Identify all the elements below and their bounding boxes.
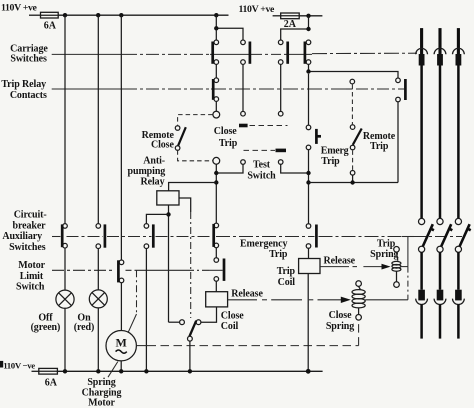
node Spring Charging Motor label [82, 377, 122, 408]
svg-text:Trip: Trip [277, 266, 296, 277]
wire lamp On to -ve bus [97, 308, 99, 371]
svg-text:Relay: Relay [141, 176, 165, 187]
wire trip spring to trip linkage riser [401, 266, 408, 268]
junction remote trip tap [350, 180, 354, 184]
linkage trip coil release to trip spring [320, 264, 391, 270]
node test switch close terminal (bottom) [241, 160, 246, 165]
node On (red) label [74, 312, 94, 333]
svg-text:110V +ve: 110V +ve [1, 3, 38, 14]
linkage anti-pumping relay to changeover contact (dash-dot) [190, 212, 192, 318]
carriage switch S1 (col K1, bar left) [213, 40, 219, 64]
node Anti-pumping Relay label [128, 156, 166, 188]
svg-text:110V −ve: 110V −ve [3, 360, 35, 370]
svg-text:Trip: Trip [321, 156, 340, 167]
wire branch feed to K1/K2 columns [216, 15, 243, 40]
wire col B (top bus to aux switch) [97, 15, 99, 223]
junction branch K1/K2 [214, 26, 218, 30]
svg-text:Close: Close [221, 311, 244, 322]
wire relay column to changeover left terminal [169, 321, 180, 323]
junction node E lower [306, 180, 310, 184]
node 110V +ve supply label (2A branch) [239, 4, 276, 15]
switch changeover contact (anti-pumping / close) [180, 320, 201, 341]
svg-text:Release: Release [324, 255, 356, 266]
junction top bus at col A [63, 13, 67, 17]
junction top bus at col C [119, 13, 123, 17]
junction branch K3/K4 [306, 27, 310, 31]
wire relay to linkage (right side) [179, 198, 191, 212]
wire node D to test switch close terminal [216, 164, 243, 173]
aux switch A5 (col K4, bar right, trip circuit) [306, 224, 316, 249]
relay RLA anti-pumping relay coil [157, 191, 179, 205]
junction -ve bus at lamp On [96, 369, 100, 373]
wire col A aux switch to lamp [64, 248, 66, 290]
node Trip Coil label [277, 266, 296, 288]
test link Trip (dashes and solid plug bar) [244, 149, 287, 153]
svg-text:Close: Close [214, 126, 237, 137]
breaker pole 3 [453, 28, 471, 339]
wire close coil bottom to changeover right terminal [201, 307, 217, 322]
node test switch trip terminal (bottom) [278, 160, 283, 165]
node Remote Close label [142, 130, 175, 150]
node Carriage Switches label [10, 44, 48, 65]
breaker pole 1 [416, 28, 434, 339]
lamp LP1 Off green [56, 290, 74, 308]
svg-text:Contacts: Contacts [10, 90, 47, 101]
svg-text:110V +ve: 110V +ve [239, 4, 276, 15]
wire trip coil to -ve bus [307, 274, 309, 372]
fuse F2 2A [273, 13, 300, 30]
carriage switch S4 (col K4, bar left) [305, 40, 311, 64]
switch Remote Trip (blade with dashed leads) [350, 79, 362, 182]
junction -ve bus at trip coil [306, 369, 311, 374]
svg-text:M: M [116, 336, 127, 350]
spring Close Spring [352, 281, 365, 320]
carriage switch S2 (col K2, bar right) [241, 40, 250, 64]
svg-text:6A: 6A [44, 20, 57, 31]
junction -ve bus at motor [119, 369, 123, 373]
node test switch close terminal (top) [241, 111, 246, 116]
svg-text:breaker: breaker [13, 220, 47, 231]
node Motor Limit Switch label [16, 260, 46, 292]
svg-text:Coil: Coil [278, 277, 296, 288]
wire close coil column (aux to limit to coil) [215, 281, 217, 292]
wire trip coil column (aux contact to coil) [308, 248, 310, 258]
coil Trip Coil [299, 259, 320, 274]
coil Close Coil [206, 292, 228, 307]
wire close tap lower to node D [215, 164, 217, 223]
switch Emergency Trip pushbutton (col K4) [306, 74, 321, 150]
wire remote-trip contact down to node E [397, 102, 399, 183]
wire K3 column through trip row [280, 64, 282, 111]
wire test switch trip terminal to node E [281, 164, 309, 173]
trip relay contact TR2 (remote trip circuit, bar right) [396, 78, 406, 102]
switch Remote Close (blade with dashed leads) [175, 115, 212, 161]
svg-text:(green): (green) [31, 322, 61, 333]
wire col D aux switch to -ve bus [145, 249, 147, 372]
linkage motor to close spring (solid stub then dashed) [136, 320, 358, 345]
wire 2A branch bus [299, 15, 322, 17]
svg-text:Auxiliary: Auxiliary [2, 231, 42, 242]
wire node D to anti-pumping relay [169, 183, 217, 191]
junction top bus at col B [96, 13, 100, 17]
wire leader from label to motor [108, 362, 118, 378]
node test switch trip terminal (top) [278, 111, 283, 116]
node Circuit-breaker Auxiliary Switches label [2, 210, 46, 254]
wire -ve bottom bus [57, 370, 322, 372]
svg-text:Switch: Switch [16, 281, 45, 292]
svg-text:Emergency: Emergency [240, 238, 288, 249]
linkage motor to limit row (dash-dot) [128, 270, 136, 332]
svg-text:Switches: Switches [9, 242, 46, 253]
spring Trip Spring [392, 247, 401, 288]
wire K4 to remote-trip contact branch [309, 64, 399, 78]
aux switch A1 (col A, bar left, lamp Off circuit) [62, 224, 67, 248]
wire carriage-switch linkage row [52, 53, 417, 54]
wire K1 column upper stub [215, 28, 217, 40]
wire relay branch to aux contact col D [146, 214, 168, 223]
svg-text:Release: Release [231, 289, 263, 300]
wire lamp Off to -ve bus [64, 308, 66, 371]
svg-text:Motor: Motor [18, 260, 45, 271]
node Close Coil label [221, 311, 244, 333]
wire limit switch to motor [120, 283, 122, 331]
svg-text:Test: Test [253, 160, 271, 171]
node close tap terminal (lower) [213, 157, 220, 164]
fuse F3 6A (bottom) [32, 368, 58, 388]
junction node D upper [214, 171, 218, 175]
node 110V +ve supply label (left) [1, 3, 38, 14]
junction 2A bus [306, 14, 310, 18]
aux switch A2 (col B, bar right, lamp On circuit) [96, 224, 105, 249]
wire col C (top bus to motor limit switch) [120, 15, 122, 260]
junction -ve bus at lamp Off [63, 369, 67, 373]
junction node D lower [214, 180, 218, 184]
node 110V -ve supply label [0, 360, 35, 370]
motor M spring charging motor [106, 331, 136, 361]
wire motor to -ve bus [120, 361, 122, 371]
wire emergency trip to trip coil column [308, 150, 310, 224]
motor limit switch L1 (col C, bar left) [118, 260, 123, 283]
aux switch A3 (col D, bar right, motor circuit) [144, 224, 153, 249]
wire node E to remote trip contact [309, 182, 399, 184]
test link Close (solid plug bar and dashes) [239, 124, 288, 128]
svg-text:Trip Relay: Trip Relay [1, 79, 46, 90]
wire trip-relay linkage row [52, 88, 404, 90]
junction top bus at col K1 [214, 13, 218, 17]
node Emergency Trip label [240, 238, 288, 260]
svg-text:Trip: Trip [269, 249, 288, 260]
svg-text:Switches: Switches [10, 54, 47, 65]
svg-text:Close: Close [329, 310, 352, 321]
svg-text:6A: 6A [45, 377, 58, 388]
svg-text:Anti-: Anti- [143, 156, 165, 167]
node Trip Relay Contacts label [1, 79, 47, 101]
svg-text:Trip: Trip [370, 141, 389, 152]
node Test Switch label [247, 160, 276, 182]
wire relay bottom column [168, 205, 170, 322]
wire changeover bottom to -ve bus [189, 341, 191, 371]
svg-text:Motor: Motor [88, 398, 115, 408]
aux switch A4 (col K1, bar left, close circuit) [214, 223, 219, 248]
linkage close coil release to close spring [228, 297, 351, 303]
junction -ve bus at changeover [188, 369, 192, 373]
wire close spring to linkage riser [365, 299, 408, 301]
node Emerg Trip label [321, 145, 349, 167]
svg-text:Switch: Switch [247, 170, 276, 181]
carriage switch S3 (col K3, bar right) [278, 40, 287, 64]
svg-text:Spring: Spring [326, 321, 354, 332]
breaker pole 2 [434, 28, 452, 339]
fuse F1 6A (top) [29, 12, 58, 31]
linkage riser from aux row to release lines [407, 237, 409, 300]
lamp LP2 On red [89, 290, 107, 308]
svg-text:Emerg: Emerg [321, 145, 349, 156]
wire K1 trip contact to close tap [215, 101, 217, 111]
junction K4 branch [306, 69, 310, 73]
motor limit switch L2 (col K1, bar right) [214, 248, 224, 282]
wire col A (top bus to aux switch) [64, 15, 66, 223]
node Close Spring label [326, 310, 354, 332]
wire K2 column through trip row [242, 64, 244, 111]
wire motor-limit linkage row [52, 269, 223, 271]
node Off (green) label [31, 312, 61, 333]
junction node E upper [306, 171, 310, 175]
svg-text:Trip: Trip [219, 138, 238, 149]
node close tap terminal (upper) [213, 111, 220, 118]
junction relay bottom [166, 212, 170, 216]
wire +ve top bus [58, 14, 228, 16]
node Trip Spring label [370, 238, 398, 259]
svg-text:(red): (red) [74, 322, 94, 333]
svg-text:Coil: Coil [221, 321, 239, 332]
svg-text:Limit: Limit [20, 271, 44, 282]
wire branch feed to K3/K4 columns [281, 16, 309, 40]
svg-text:Circuit-: Circuit- [14, 210, 47, 221]
svg-text:Trip: Trip [377, 238, 396, 249]
svg-text:Close: Close [151, 139, 174, 150]
trip relay contact TR1 (col K1, bar left) [213, 64, 218, 101]
wire col B aux switch to lamp [97, 249, 99, 291]
node Remote Trip label [363, 131, 396, 152]
wire auxiliary-switch linkage row [52, 236, 462, 238]
junction -ve bus at col D [144, 369, 148, 373]
